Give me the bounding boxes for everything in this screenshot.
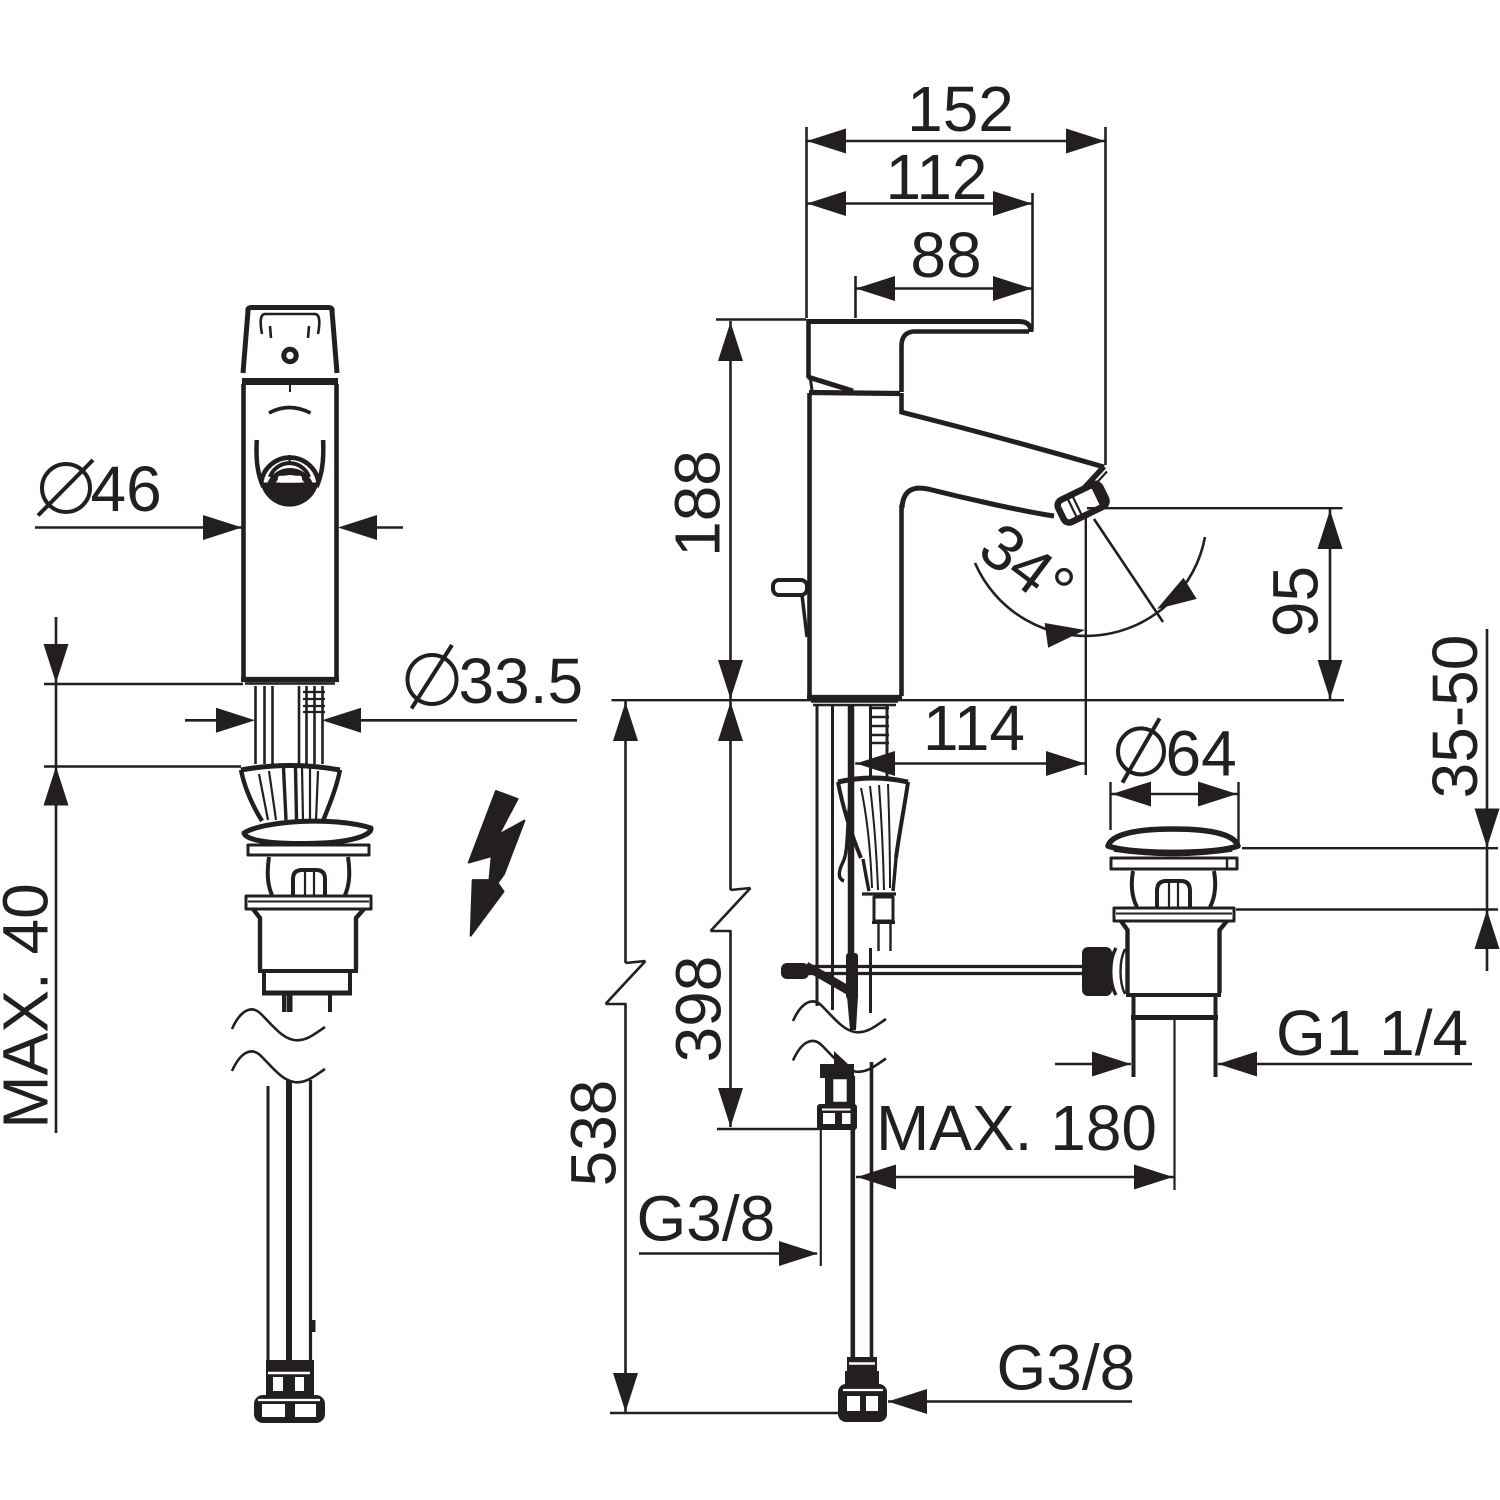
handle cap left edge	[806, 319, 811, 378]
G3/8 connector wedge	[834, 1051, 849, 1066]
front cone ribs	[259, 767, 318, 820]
34 degree arc	[975, 537, 1205, 636]
svg-text:46: 46	[91, 453, 162, 525]
34 degree arc arrows	[1045, 618, 1087, 648]
valve lower section	[1132, 995, 1136, 1016]
spout mouth whiskers	[256, 440, 263, 487]
extension line left of 88	[854, 276, 857, 318]
aerator	[1055, 479, 1110, 524]
svg-text:MAX. 180: MAX. 180	[876, 1092, 1157, 1164]
mouth slot	[278, 476, 302, 483]
svg-text:G3/8: G3/8	[997, 1332, 1136, 1404]
svg-text:MAX. 40: MAX. 40	[0, 883, 62, 1128]
dimension 46 leader right	[338, 515, 377, 540]
svg-text:33.5: 33.5	[459, 645, 584, 717]
valve body walls	[1121, 921, 1128, 993]
nut below cone	[874, 897, 893, 921]
front pipes	[256, 686, 323, 764]
eyebrow arc	[269, 408, 311, 414]
dimension 188 line	[729, 321, 732, 700]
dimension 88 line	[856, 287, 1033, 290]
valve side port	[1082, 947, 1112, 996]
G3/8 connector window left bar	[825, 1077, 832, 1104]
rod hook	[839, 795, 851, 881]
dimension 112 line	[807, 202, 1033, 205]
lever top edge	[808, 322, 1031, 333]
bottom reference line	[610, 1412, 859, 1414]
svg-text:188: 188	[662, 450, 734, 557]
front bottom fitting	[266, 1360, 314, 1396]
rod clamp pin	[846, 953, 858, 999]
valve centre line	[1173, 1020, 1175, 1190]
body right wall front	[334, 384, 339, 678]
lever inner recess	[261, 314, 320, 334]
front twin hoses below break	[267, 1086, 270, 1360]
front thin washer	[248, 845, 369, 855]
svg-text:34°: 34°	[967, 509, 1088, 625]
dimension 398 line (with break)	[711, 701, 751, 1127]
front valve neck	[268, 857, 272, 895]
hose B lower left wall	[850, 1076, 855, 1360]
lightning bolt	[469, 791, 525, 936]
basin reference line	[612, 699, 1345, 701]
body right wall lower	[899, 505, 904, 696]
handle bottom diagonal	[808, 377, 853, 391]
mouth dark bowl	[261, 483, 319, 507]
lever underside	[902, 332, 1030, 393]
svg-text:398: 398	[663, 956, 735, 1063]
washer under cone	[862, 892, 896, 895]
extension lines for 64	[1109, 782, 1111, 830]
G3/8 connector nut	[817, 1104, 857, 1130]
break wave right 1	[793, 1001, 886, 1032]
shank threads	[869, 708, 889, 743]
bottom elbow rings	[847, 1357, 877, 1371]
G3/8 connector window	[832, 1078, 848, 1103]
hose B left wall	[869, 705, 872, 780]
front valve body	[253, 909, 260, 969]
break wave left 2	[232, 1051, 325, 1082]
hose B right wall	[886, 705, 889, 780]
extension line right of 112	[1031, 193, 1034, 330]
rod left grip	[781, 963, 809, 979]
extension line right of 152 (to spout tip)	[1104, 127, 1107, 465]
G3/8 lower leader	[888, 1400, 1132, 1403]
hose A left wall	[816, 705, 819, 1006]
temperature limit tab	[773, 580, 807, 595]
pop-up linkage rod	[792, 965, 1085, 968]
dimension 152 line	[807, 140, 1106, 143]
dimension MAX 40 line	[55, 617, 58, 1133]
G3/8 upper leader	[639, 1252, 817, 1255]
dimension 33.5 leaders	[185, 719, 217, 722]
valve lower flange	[1114, 908, 1234, 921]
front valve slot	[293, 870, 325, 896]
svg-text:538: 538	[558, 1080, 630, 1187]
body top seam	[809, 393, 900, 394]
base lip lines	[811, 700, 898, 702]
pop-up rod	[848, 705, 855, 958]
G3/8 connector body	[820, 1064, 854, 1078]
svg-text:88: 88	[910, 219, 981, 291]
front tail pipe	[282, 995, 286, 1012]
indicator dot	[284, 349, 296, 361]
lever top edge	[252, 308, 337, 374]
valve slot	[1157, 881, 1190, 907]
mounting cone	[838, 778, 908, 893]
dimension 538 line (with break)	[606, 701, 646, 1412]
body bottom edge	[807, 695, 902, 700]
G3/8 connector window right bar	[848, 1077, 855, 1104]
rod taper below clamp	[847, 996, 858, 1030]
svg-text:95: 95	[1260, 566, 1332, 637]
front cone	[241, 766, 340, 771]
dimension diameter 33.5 symbol	[408, 655, 457, 704]
handle corner edge	[810, 376, 813, 394]
dimension 64 line	[1111, 793, 1238, 796]
svg-text:G1 1/4: G1 1/4	[1276, 997, 1468, 1069]
body right wall upper	[899, 393, 904, 414]
dimension 35-50 line	[1486, 629, 1489, 971]
svg-text:G3/8: G3/8	[637, 1183, 776, 1255]
break wave left 1	[232, 1009, 325, 1040]
tab diagonal	[802, 595, 807, 637]
188 top reference line	[716, 318, 806, 320]
svg-text:64: 64	[1166, 718, 1237, 790]
front body bottom	[241, 677, 339, 682]
valve tail pipe	[1132, 1020, 1136, 1077]
dimension diameter 64 symbol	[1118, 728, 1164, 774]
spout top edge	[901, 412, 1104, 467]
dimension 95 line	[1329, 509, 1332, 699]
extension line left of 152	[805, 127, 808, 318]
valve body step	[1126, 993, 1221, 997]
spout end face	[1063, 467, 1104, 512]
dimension 114 line	[855, 762, 1086, 765]
dimension G1 1/4 leader	[1055, 1063, 1131, 1066]
valve neck	[1132, 871, 1137, 907]
body top seam front	[242, 378, 338, 385]
aerator level line	[1087, 507, 1343, 509]
stream extension line	[1085, 514, 1087, 775]
MAX 40 reference line bottom	[44, 765, 241, 767]
front washer disc	[244, 821, 371, 843]
svg-text:114: 114	[923, 692, 1025, 764]
hose B lower right wall	[870, 1062, 874, 1360]
bottom elbow body	[838, 1384, 887, 1422]
break wave right 2	[793, 1041, 886, 1072]
valve cap dome	[1108, 829, 1238, 852]
dimension diameter 46 symbol	[42, 464, 90, 512]
valve top level line	[1242, 847, 1498, 849]
svg-text:35-50: 35-50	[1419, 635, 1491, 799]
supply tail pipe left wall	[820, 1130, 822, 1266]
MAX 40 reference line top	[44, 683, 243, 685]
front threads	[303, 692, 325, 712]
dimension MAX 180 line	[856, 1176, 1174, 1179]
body left wall front	[241, 384, 246, 678]
front bottom cap	[254, 1395, 325, 1423]
valve top flange	[1111, 858, 1237, 869]
body left wall	[807, 393, 812, 696]
centre seam tick	[289, 384, 291, 392]
spout underside	[902, 488, 1054, 516]
hose A right wall	[831, 705, 834, 1010]
34 degree stream line	[1094, 519, 1163, 622]
stud below nut	[877, 924, 879, 951]
small nipple on right hose	[312, 1320, 316, 1332]
valve flange level line	[1236, 908, 1498, 910]
rod clamp diagonal	[806, 966, 853, 993]
front valve flange	[246, 896, 371, 909]
mouth rim thick arc	[269, 472, 311, 493]
398 reference line	[717, 1128, 819, 1130]
dimension 46 leader left	[35, 526, 206, 529]
svg-text:152: 152	[907, 73, 1014, 145]
mouth ring arcs	[261, 458, 318, 482]
